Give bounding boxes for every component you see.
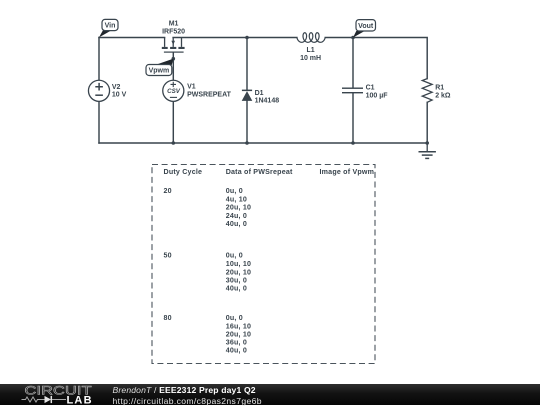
M1 body arrow [171, 41, 175, 45]
wire V1 gate lead [172, 53, 174, 81]
wire D1 bottom lead [246, 101, 248, 143]
inductor L1 coil [297, 33, 325, 62]
V2 minus sign [95, 94, 103, 96]
svg-text:40u, 0: 40u, 0 [226, 220, 247, 228]
C1 bottom plate [342, 92, 363, 93]
svg-text:Duty Cycle: Duty Cycle [164, 168, 203, 176]
M1 body stub [172, 38, 174, 47]
resistor R1 [422, 79, 451, 103]
svg-text:10u, 10: 10u, 10 [226, 260, 251, 268]
transistor Q M1 IRF520 [162, 20, 185, 52]
node dot Vpwm [172, 57, 176, 61]
svg-text:20u, 10: 20u, 10 [226, 268, 251, 276]
M1 source contact bar [178, 47, 184, 49]
M1 drain contact bar [162, 47, 168, 49]
M1 drain stub [164, 38, 166, 47]
V1 minus sign [170, 96, 177, 98]
svg-text:V1: V1 [187, 84, 196, 91]
svg-text:PWSREPEAT: PWSREPEAT [187, 92, 232, 99]
node dot R1 bottom [425, 141, 429, 145]
svg-text:Vout: Vout [358, 23, 374, 30]
V1 plus sign [171, 82, 177, 87]
svg-text:IRF520: IRF520 [162, 28, 185, 35]
svg-text:2 kΩ: 2 kΩ [435, 92, 451, 99]
wire top rail mid (source to diode to inductor) [173, 37, 297, 39]
CircuitLab logo [20, 384, 100, 405]
svg-text:LAB: LAB [67, 394, 93, 405]
M1 source stub [181, 38, 183, 47]
wire V1 bottom lead [172, 101, 174, 143]
wire C1 bottom lead [352, 93, 354, 143]
svg-text:D1: D1 [255, 90, 264, 97]
svg-text:10 V: 10 V [112, 92, 127, 99]
svg-text:Data of PWSrepeat: Data of PWSrepeat [226, 168, 293, 176]
footer bar [0, 384, 540, 405]
ground [419, 143, 436, 158]
svg-text:16u, 10: 16u, 10 [226, 322, 251, 330]
footer title [113, 386, 256, 395]
D1 cathode bar [242, 90, 252, 92]
capacitor C1 [342, 84, 388, 99]
svg-text:100 µF: 100 µF [366, 92, 389, 99]
annotation table dashed box [152, 165, 375, 364]
node flag Vout [353, 20, 376, 38]
svg-text:4u, 10: 4u, 10 [226, 195, 247, 203]
wire top rail left (Vin node) [99, 37, 165, 39]
svg-text:R1: R1 [435, 85, 444, 92]
svg-text:0u, 0: 0u, 0 [226, 252, 243, 260]
svg-text:10 mH: 10 mH [300, 55, 321, 62]
junction dots [172, 36, 430, 145]
voltage source V1 (CSV PWSREPEAT) [163, 80, 232, 101]
C1 top plate [342, 88, 363, 89]
node dot D1 top [245, 36, 249, 40]
wire bottom rail [99, 142, 427, 144]
M1 body contact bar [170, 47, 176, 49]
node dot V1 bottom [172, 141, 176, 145]
svg-text:40u, 0: 40u, 0 [226, 284, 247, 292]
svg-text:50: 50 [164, 252, 172, 260]
V2 plus sign [95, 83, 103, 91]
svg-text:Vin: Vin [105, 23, 116, 30]
svg-text:M1: M1 [169, 20, 179, 27]
svg-text:1N4148: 1N4148 [255, 98, 280, 105]
svg-text:20u, 10: 20u, 10 [226, 331, 251, 339]
wire D1 top lead [246, 38, 248, 90]
D1 anode triangle [242, 91, 253, 101]
wire V2 bottom lead [98, 101, 100, 143]
svg-text:30u, 0: 30u, 0 [226, 276, 247, 284]
wire C1 top lead (Vout) [352, 38, 354, 88]
svg-text:Image of Vpwm: Image of Vpwm [320, 168, 375, 176]
diode D1 1N4148 [242, 90, 280, 105]
node dot C1 bottom [351, 141, 355, 145]
node flag Vpwm [146, 59, 174, 76]
svg-text:20: 20 [164, 187, 172, 195]
wire V2 top lead [98, 38, 100, 81]
node dot Vout [351, 36, 355, 40]
svg-text:20u, 10: 20u, 10 [226, 204, 251, 212]
svg-text:V2: V2 [112, 84, 121, 91]
svg-text:CSV: CSV [167, 88, 181, 95]
svg-text:L1: L1 [307, 47, 315, 54]
svg-text:80: 80 [164, 314, 172, 322]
svg-text:C1: C1 [366, 84, 375, 91]
svg-text:0u, 0: 0u, 0 [226, 187, 243, 195]
node flag Vin [99, 19, 118, 37]
svg-text:40u, 0: 40u, 0 [226, 347, 247, 355]
footer url [113, 396, 262, 406]
svg-text:Vpwm: Vpwm [149, 68, 170, 75]
svg-text:24u, 0: 24u, 0 [226, 212, 247, 220]
wire top rail right (inductor to Vout to R1) [325, 38, 427, 79]
wire R1 bottom lead [426, 102, 428, 143]
svg-text:36u, 0: 36u, 0 [226, 339, 247, 347]
svg-text:0u, 0: 0u, 0 [226, 314, 243, 322]
node dot D1 bottom [245, 141, 249, 145]
voltage source V2 [88, 80, 126, 101]
M1 gate plate [164, 52, 184, 53]
